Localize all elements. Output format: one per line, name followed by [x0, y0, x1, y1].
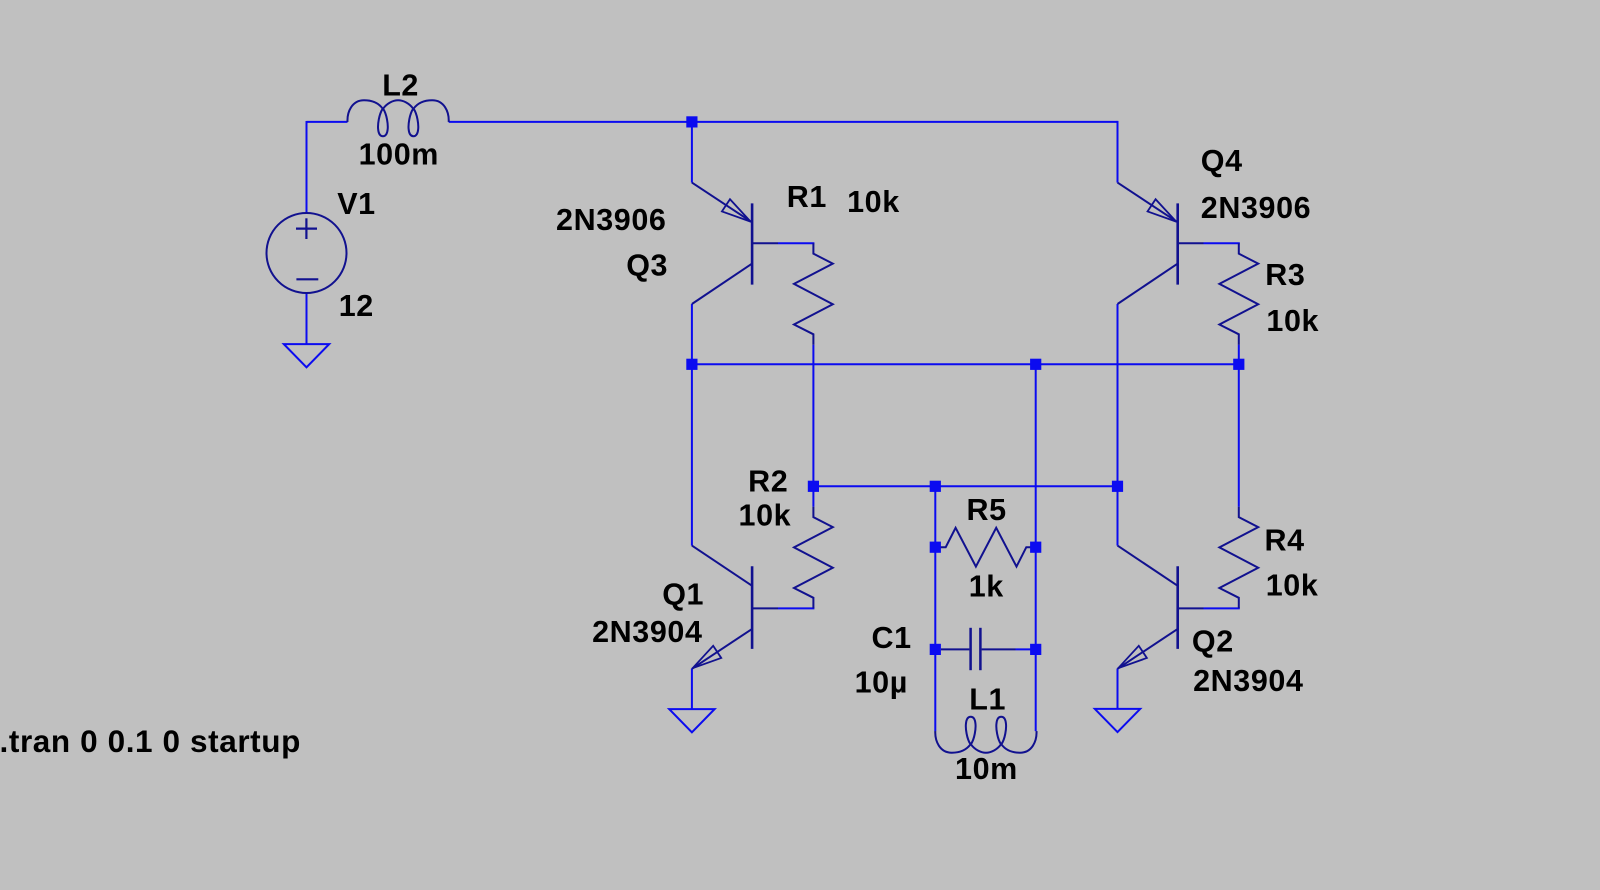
junction junction R5 right — [1030, 542, 1041, 553]
wire R5 left to C1 left — [934, 547, 936, 649]
capacitor C1 — [941, 648, 970, 650]
svg-text:100m: 100m — [359, 137, 439, 171]
transistor Q1 (NPN) — [692, 546, 752, 586]
junction junction rail B tank left — [930, 481, 941, 492]
svg-text:R5: R5 — [967, 493, 1007, 527]
wire Q3 emitter feed — [691, 121, 693, 183]
resistor R3 — [1219, 243, 1258, 344]
wire rail B (node B bus) — [813, 485, 1117, 487]
junction junction C1 right — [1030, 644, 1041, 655]
wire Q2 base to R4 — [1204, 607, 1240, 609]
resistor R4 — [1219, 507, 1258, 608]
wire rail A to R5 right — [1035, 364, 1037, 547]
junction junction C1 left — [930, 644, 941, 655]
junction junction rail A tank feed — [1030, 359, 1041, 370]
svg-text:R4: R4 — [1265, 523, 1305, 557]
wire rail A (node A bus) — [692, 363, 1239, 365]
junction junction rail A right (R3-R4) — [1233, 359, 1244, 370]
svg-text:Q1: Q1 — [662, 577, 704, 611]
wire Q4 base to R3 — [1204, 242, 1240, 244]
svg-text:R1: R1 — [787, 180, 827, 214]
wire C1 right lead — [1016, 648, 1036, 650]
svg-text:1k: 1k — [969, 570, 1004, 604]
resistor R2 — [794, 507, 833, 608]
junction junction rail A left — [686, 359, 697, 370]
wire Q3 collector to rail A — [691, 304, 693, 364]
svg-text:10k: 10k — [1266, 304, 1319, 338]
svg-text:L2: L2 — [382, 69, 419, 103]
resistor R5 — [935, 528, 1036, 567]
svg-text:2N3906: 2N3906 — [556, 203, 666, 237]
svg-text:2N3906: 2N3906 — [1201, 191, 1311, 225]
inductor L1 — [935, 717, 1036, 753]
wire Q4 emitter feed — [1117, 121, 1119, 183]
svg-text:10k: 10k — [739, 498, 792, 532]
svg-text:10µ: 10µ — [855, 666, 908, 700]
svg-text:R2: R2 — [748, 465, 788, 499]
junction junction rail B right (Q4-Q2) — [1112, 481, 1123, 492]
transistor Q2 (NPN) — [1118, 546, 1178, 586]
wire V1 minus lead — [306, 293, 308, 344]
wire rail B to Q2 collector — [1117, 486, 1119, 545]
wire Q1 emitter to ground — [691, 669, 693, 710]
ground Q2 — [1095, 709, 1140, 732]
wire V1 plus lead — [306, 121, 308, 213]
wire V1 top to L2 — [307, 121, 348, 123]
wire rail A to R4 top — [1238, 364, 1240, 507]
svg-text:2N3904: 2N3904 — [592, 615, 702, 649]
wire R3 bottom to rail A — [1238, 345, 1240, 365]
wire Q3 base to R1 — [778, 242, 814, 244]
svg-text:L1: L1 — [969, 683, 1006, 717]
svg-text:C1: C1 — [872, 621, 912, 655]
svg-text:Q3: Q3 — [626, 248, 668, 282]
svg-text:10k: 10k — [847, 185, 900, 219]
voltage source V1 — [267, 213, 347, 293]
wire Q1 base to R2 — [778, 607, 814, 609]
wire Q2 emitter to ground — [1117, 669, 1119, 709]
wire R1 bottom to R2 top — [812, 345, 814, 507]
svg-text:Q4: Q4 — [1201, 144, 1243, 178]
wire R5 right to C1 right — [1035, 547, 1037, 649]
wire Q4 collector to rail B — [1117, 304, 1119, 486]
svg-text:10k: 10k — [1266, 568, 1319, 602]
junction node supply / junction top rail — [686, 116, 697, 127]
ground Q1 — [669, 709, 714, 732]
inductor L2 — [347, 100, 448, 136]
svg-text:10m: 10m — [955, 752, 1018, 786]
wire rail A to Q1 collector — [691, 364, 693, 545]
transistor Q3 (PNP) — [692, 183, 752, 223]
svg-text:Q2: Q2 — [1192, 625, 1234, 659]
svg-text:V1: V1 — [337, 187, 376, 221]
wire rail B to R5 left — [934, 486, 936, 547]
svg-text:.tran 0 0.1 0 startup: .tran 0 0.1 0 startup — [0, 723, 301, 759]
wire C1 right to L1 right — [1035, 649, 1037, 731]
wire L2 to top rail — [449, 121, 1118, 123]
svg-text:R3: R3 — [1265, 258, 1305, 292]
svg-text:2N3904: 2N3904 — [1193, 664, 1303, 698]
svg-text:12: 12 — [339, 289, 374, 323]
junction junction rail B left (R1-R2) — [808, 481, 819, 492]
junction junction R5 left — [930, 542, 941, 553]
transistor Q4 (PNP) — [1118, 183, 1178, 223]
wire C1 left to L1 left — [934, 649, 936, 731]
ground V1 — [284, 344, 329, 367]
resistor R1 — [794, 243, 833, 344]
